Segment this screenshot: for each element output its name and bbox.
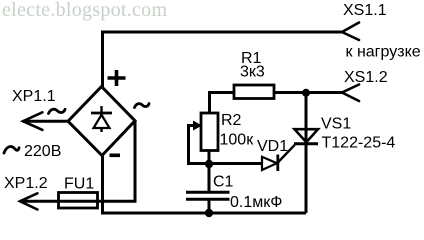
svg-text:100к: 100к — [220, 132, 255, 149]
svg-text:3к3: 3к3 — [240, 64, 265, 81]
svg-text:FU1: FU1 — [64, 176, 94, 193]
svg-text:R2: R2 — [221, 112, 242, 129]
svg-text:к нагрузке: к нагрузке — [346, 44, 421, 61]
svg-text:220В: 220В — [24, 143, 61, 160]
svg-text:VD1: VD1 — [257, 138, 288, 155]
svg-text:0.1мкФ: 0.1мкФ — [230, 194, 282, 211]
svg-text:VS1: VS1 — [321, 116, 351, 133]
svg-text:XS1.1: XS1.1 — [343, 2, 387, 19]
svg-text:C1: C1 — [213, 173, 234, 190]
svg-text:XP1.2: XP1.2 — [4, 175, 48, 192]
svg-text:XS1.2: XS1.2 — [344, 69, 388, 86]
svg-text:electe.blogspot.com: electe.blogspot.com — [2, 0, 167, 21]
svg-text:XP1.1: XP1.1 — [12, 88, 56, 105]
svg-text:T122-25-4: T122-25-4 — [322, 135, 396, 152]
